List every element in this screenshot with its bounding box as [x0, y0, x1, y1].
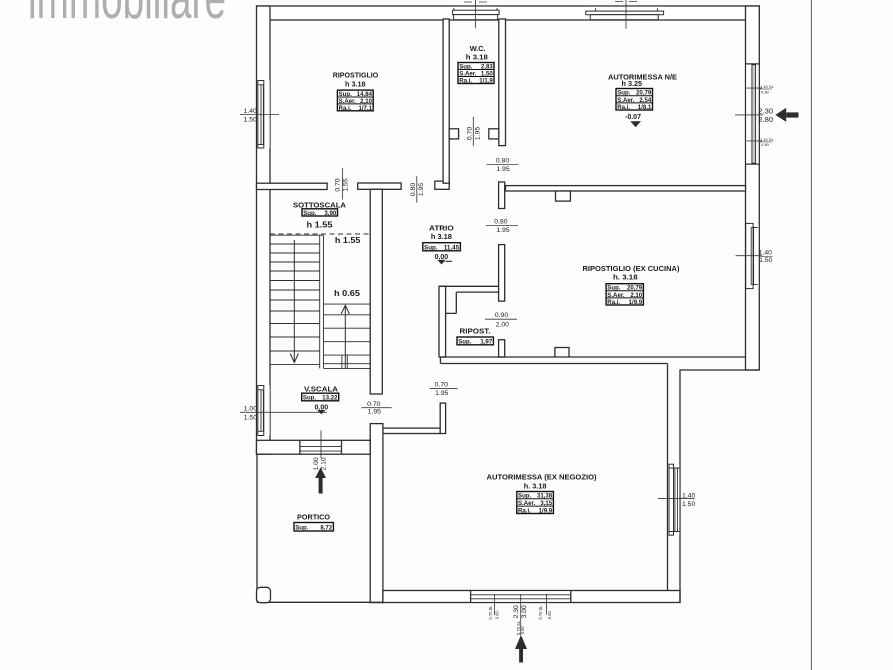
- svg-text:S.Aer.: S.Aer.: [459, 70, 477, 77]
- dim atrio-vscala door 0.70/1.95: [361, 401, 391, 416]
- arrow entrance right (left-pointing): [775, 108, 798, 122]
- svg-text:Ra.i.: Ra.i.: [459, 77, 472, 84]
- room V.SCALA: [302, 385, 339, 412]
- page border right: [810, 0, 812, 670]
- dim right door small 1.10SL/0.90 bottom: [760, 137, 775, 147]
- svg-text:1/9,9: 1/9,9: [539, 507, 553, 514]
- arrow down autorimessa NE level: [630, 121, 641, 127]
- svg-text:h 3.18: h 3.18: [431, 232, 452, 241]
- window ex negozio right 1.40/1.50: [668, 464, 680, 535]
- svg-text:1.95: 1.95: [435, 390, 448, 397]
- dim cucina window 1.40/1.50: [736, 250, 773, 265]
- svg-text:1.00: 1.00: [244, 406, 257, 413]
- svg-text:1.50: 1.50: [759, 257, 772, 264]
- room RIPOSTIGLIO (EX CUCINA): [583, 264, 680, 306]
- svg-text:0.70: 0.70: [435, 381, 448, 388]
- svg-text:0.70: 0.70: [335, 178, 342, 191]
- svg-text:1/9,9: 1/9,9: [629, 299, 643, 306]
- dim garage center 2.30/3.00 rotated: [513, 594, 528, 635]
- window left top 1.40/1.50: [257, 80, 269, 148]
- closet left wall vertical: [439, 286, 446, 357]
- svg-text:0.80: 0.80: [496, 158, 509, 165]
- svg-text:8,72: 8,72: [320, 525, 332, 532]
- svg-text:h 3.25: h 3.25: [622, 79, 643, 88]
- svg-text:2.00: 2.00: [496, 321, 509, 328]
- atrio/ex-cucina wall piece 1: [499, 182, 505, 209]
- svg-text:0.70 SL: 0.70 SL: [488, 605, 493, 620]
- pillar bump ex cucina bottom: [555, 348, 569, 358]
- wall ex-cucina lower line: [440, 363, 667, 365]
- dim vscala door 1.00/2.10 rotated: [313, 431, 327, 471]
- svg-text:Ra.i.: Ra.i.: [339, 105, 352, 112]
- svg-text:2.30: 2.30: [513, 605, 520, 618]
- svg-text:Sup.: Sup.: [303, 210, 317, 217]
- svg-text:Sup.: Sup.: [303, 395, 317, 402]
- room PORTICO: [294, 513, 333, 532]
- dim vestibule door 0.80/1.95: [486, 158, 518, 174]
- ex negozio bottom wall: [383, 591, 680, 603]
- svg-text:0.60: 0.60: [547, 610, 552, 619]
- svg-text:13,22: 13,22: [322, 395, 338, 402]
- svg-text:h. 3.18: h. 3.18: [613, 273, 638, 282]
- svg-text:2.10: 2.10: [320, 457, 327, 470]
- svg-text:2,83: 2,83: [481, 63, 493, 70]
- dim wc door 0.70/1.95 rotated: [467, 117, 482, 147]
- dim right door small 1.10SL/0.90 top: [760, 84, 775, 94]
- svg-text:S.Aer.: S.Aer.: [518, 500, 536, 507]
- svg-text:Sup.: Sup.: [617, 90, 631, 97]
- svg-text:3,15: 3,15: [540, 500, 552, 507]
- svg-text:h 3.18: h 3.18: [466, 52, 488, 61]
- dim ripostiglio-atrio door 0.80/1.95 rotated: [410, 176, 425, 203]
- dim closet door 0.90/2.00: [485, 312, 517, 328]
- dim wc window top line: [464, 0, 487, 28]
- ARROWS: [315, 108, 798, 663]
- svg-text:31,38: 31,38: [537, 493, 553, 500]
- svg-text:1.95: 1.95: [418, 183, 425, 196]
- main flight steps: [270, 244, 320, 365]
- svg-text:AUTORIMESSA (EX NEGOZIO): AUTORIMESSA (EX NEGOZIO): [487, 473, 597, 482]
- room RIPOST.: [457, 327, 493, 346]
- svg-text:0.60: 0.60: [495, 610, 500, 619]
- svg-text:AUTORIMESSA N/E: AUTORIMESSA N/E: [608, 73, 677, 82]
- ex negozio right wall inner: [667, 364, 669, 591]
- svg-text:1.10 SL: 1.10 SL: [760, 84, 775, 89]
- svg-text:h 0.65: h 0.65: [334, 289, 361, 298]
- dim garage left 0.70SL/0.60 rotated: [488, 594, 500, 620]
- svg-text:RIPOST.: RIPOST.: [460, 327, 491, 336]
- right flight steps: [324, 304, 371, 368]
- svg-text:Ra.i.: Ra.i.: [607, 299, 620, 306]
- svg-text:1.00: 1.00: [313, 457, 320, 470]
- svg-text:S.Aer.: S.Aer.: [617, 97, 635, 104]
- dim negozio window 1.40/1.50: [658, 493, 695, 508]
- stairs down arrow: [290, 240, 298, 363]
- corridor bottom wall: [383, 428, 440, 433]
- svg-text:20,79: 20,79: [627, 285, 643, 292]
- svg-text:0.90: 0.90: [761, 142, 770, 147]
- exterior right wall upper: [746, 6, 760, 370]
- exterior top wall: [257, 6, 759, 20]
- room W.C.: [458, 44, 494, 85]
- dim window left top 1.40/1.50: [240, 108, 279, 124]
- closet top wall: [439, 286, 499, 313]
- atrio/ex-cucina wall piece 2: [499, 245, 505, 302]
- room SOTTOSCALA: [293, 201, 361, 299]
- arrow up v.scala entrance: [315, 467, 326, 493]
- svg-text:11,45: 11,45: [444, 244, 460, 251]
- svg-text:0.70: 0.70: [467, 127, 474, 140]
- svg-text:-0.07: -0.07: [625, 114, 641, 121]
- svg-text:0.60: 0.60: [520, 626, 525, 635]
- svg-text:1.55: 1.55: [343, 178, 350, 191]
- wall autorimessaNE / ex cucina: [506, 186, 746, 191]
- arrow up garage entrance: [515, 635, 527, 663]
- portico left edge line: [256, 454, 258, 602]
- stairs up arrow: [341, 305, 349, 368]
- svg-text:20,79: 20,79: [636, 90, 652, 97]
- WALLS: [257, 6, 760, 603]
- svg-text:1.10 SL: 1.10 SL: [760, 137, 775, 142]
- svg-text:3.00: 3.00: [521, 605, 528, 618]
- svg-text:1.40: 1.40: [759, 250, 772, 257]
- svg-text:Sup.: Sup.: [518, 493, 532, 500]
- STAIRS: [270, 234, 370, 368]
- garage door 2.30/3.00: [471, 591, 571, 603]
- portico right wall: [370, 424, 383, 603]
- arrow down atrio level: [437, 260, 445, 265]
- portico bottom line: [257, 601, 383, 603]
- wall ex-cucina / ex-negozio: inner top line: [440, 357, 745, 364]
- svg-text:2,10: 2,10: [630, 292, 642, 299]
- arrow down v.scala level: [317, 410, 325, 414]
- stairs/atrio wall: [370, 189, 382, 394]
- svg-text:1/8,1: 1/8,1: [638, 104, 652, 111]
- main flight box: [270, 235, 324, 368]
- dim garage right 0.70SL/0.60 rotated: [538, 594, 552, 620]
- room AUTORIMESSA (EX NEGOZIO): [487, 473, 597, 515]
- svg-text:0.80: 0.80: [494, 218, 507, 225]
- svg-text:1.95: 1.95: [496, 227, 509, 234]
- svg-text:0.90: 0.90: [495, 312, 508, 319]
- DOORS: [300, 64, 762, 603]
- window ex cucina right 1.40/1.50: [746, 223, 759, 288]
- svg-text:0.80: 0.80: [410, 183, 417, 196]
- svg-text:2,54: 2,54: [639, 97, 651, 104]
- up arrow tail marks: [342, 355, 347, 368]
- svg-text:h 1.55: h 1.55: [307, 221, 334, 230]
- WINDOWS: [257, 7, 758, 535]
- wall T-bar seg B: [358, 183, 401, 189]
- svg-text:S.Aer.: S.Aer.: [607, 292, 625, 299]
- svg-text:1/7,1: 1/7,1: [358, 105, 372, 112]
- svg-text:V.SCALA: V.SCALA: [304, 385, 339, 394]
- svg-text:h 1.55: h 1.55: [335, 236, 361, 245]
- svg-text:1.50: 1.50: [244, 117, 257, 124]
- window left bottom 1.00/1.50: [257, 385, 269, 435]
- svg-text:Sup.: Sup.: [424, 244, 438, 251]
- wc door left jamb notch: [449, 129, 458, 139]
- svg-text:1.50: 1.50: [682, 501, 695, 508]
- wall ripostiglio/sottoscala seg A: [257, 183, 328, 189]
- wc right wall: [499, 19, 506, 146]
- door right wall autorimessa NE 2.30/2.80: [746, 64, 763, 164]
- svg-text:0.70 SL: 0.70 SL: [538, 605, 543, 620]
- svg-text:1.40: 1.40: [244, 108, 257, 115]
- window wc top: [453, 7, 500, 20]
- svg-text:1,50: 1,50: [481, 70, 493, 77]
- french door v.scala 1.00/2.10: [300, 440, 342, 454]
- svg-text:Ra.i.: Ra.i.: [518, 507, 531, 514]
- exterior left wall: [257, 6, 271, 454]
- svg-text:1.95: 1.95: [368, 409, 381, 416]
- dim sottoscala door 0.70/1.55 rotated: [335, 168, 350, 199]
- room AUTORIMESSA N/E: [608, 73, 677, 121]
- corridor door jamb: [440, 403, 445, 433]
- svg-text:1.50: 1.50: [244, 415, 257, 422]
- svg-text:0.70: 0.70: [367, 401, 380, 408]
- dim atrio-cucina door 0.80/1.95: [486, 218, 518, 234]
- wc right wall foot: [489, 129, 499, 139]
- svg-text:RIPOSTIGLIO: RIPOSTIGLIO: [333, 70, 379, 79]
- dim autorimessa window top line: [615, 0, 637, 29]
- svg-text:1,97: 1,97: [480, 338, 492, 345]
- v.scala bottom wall: [257, 440, 371, 454]
- svg-text:0.90: 0.90: [761, 89, 770, 94]
- portico corner pillar: [257, 587, 271, 602]
- pillar notch below wall: [556, 191, 571, 201]
- svg-text:immobiliare: immobiliare: [28, 0, 226, 31]
- svg-text:Ra.i.: Ra.i.: [617, 104, 630, 111]
- dashed h1.55 line: [270, 233, 370, 235]
- svg-text:1.95: 1.95: [475, 127, 482, 140]
- svg-text:2.80: 2.80: [758, 115, 773, 124]
- svg-text:Sup.: Sup.: [458, 338, 472, 345]
- window autorimessa top: [586, 7, 664, 20]
- svg-text:Sup.: Sup.: [295, 525, 309, 532]
- DIMS: [240, 0, 775, 635]
- svg-text:1/1,9: 1/1,9: [479, 77, 493, 84]
- dim right door 2.30/2.80: [735, 107, 773, 124]
- wc left wall: [443, 19, 449, 183]
- svg-text:Sup.: Sup.: [459, 63, 473, 70]
- svg-text:h. 3.18: h. 3.18: [524, 482, 547, 491]
- svg-text:h 3.18: h 3.18: [345, 80, 366, 89]
- room RIPOSTIGLIO: [333, 70, 379, 111]
- dim corridor door 0.70/1.95: [429, 381, 457, 397]
- exterior step wall outer: [680, 370, 759, 603]
- svg-text:3,90: 3,90: [324, 210, 336, 217]
- wall stub seg C (wc foot): [435, 181, 449, 189]
- svg-text:1.95: 1.95: [496, 166, 509, 173]
- svg-text:Sup.: Sup.: [607, 285, 621, 292]
- atrio/ex-cucina wall piece 3 jamb: [499, 340, 505, 357]
- svg-text:1.40: 1.40: [682, 493, 695, 500]
- svg-text:PORTICO: PORTICO: [297, 513, 330, 522]
- dim window left bottom 1.00/1.50: [240, 406, 327, 422]
- room ATRIO: [423, 224, 461, 262]
